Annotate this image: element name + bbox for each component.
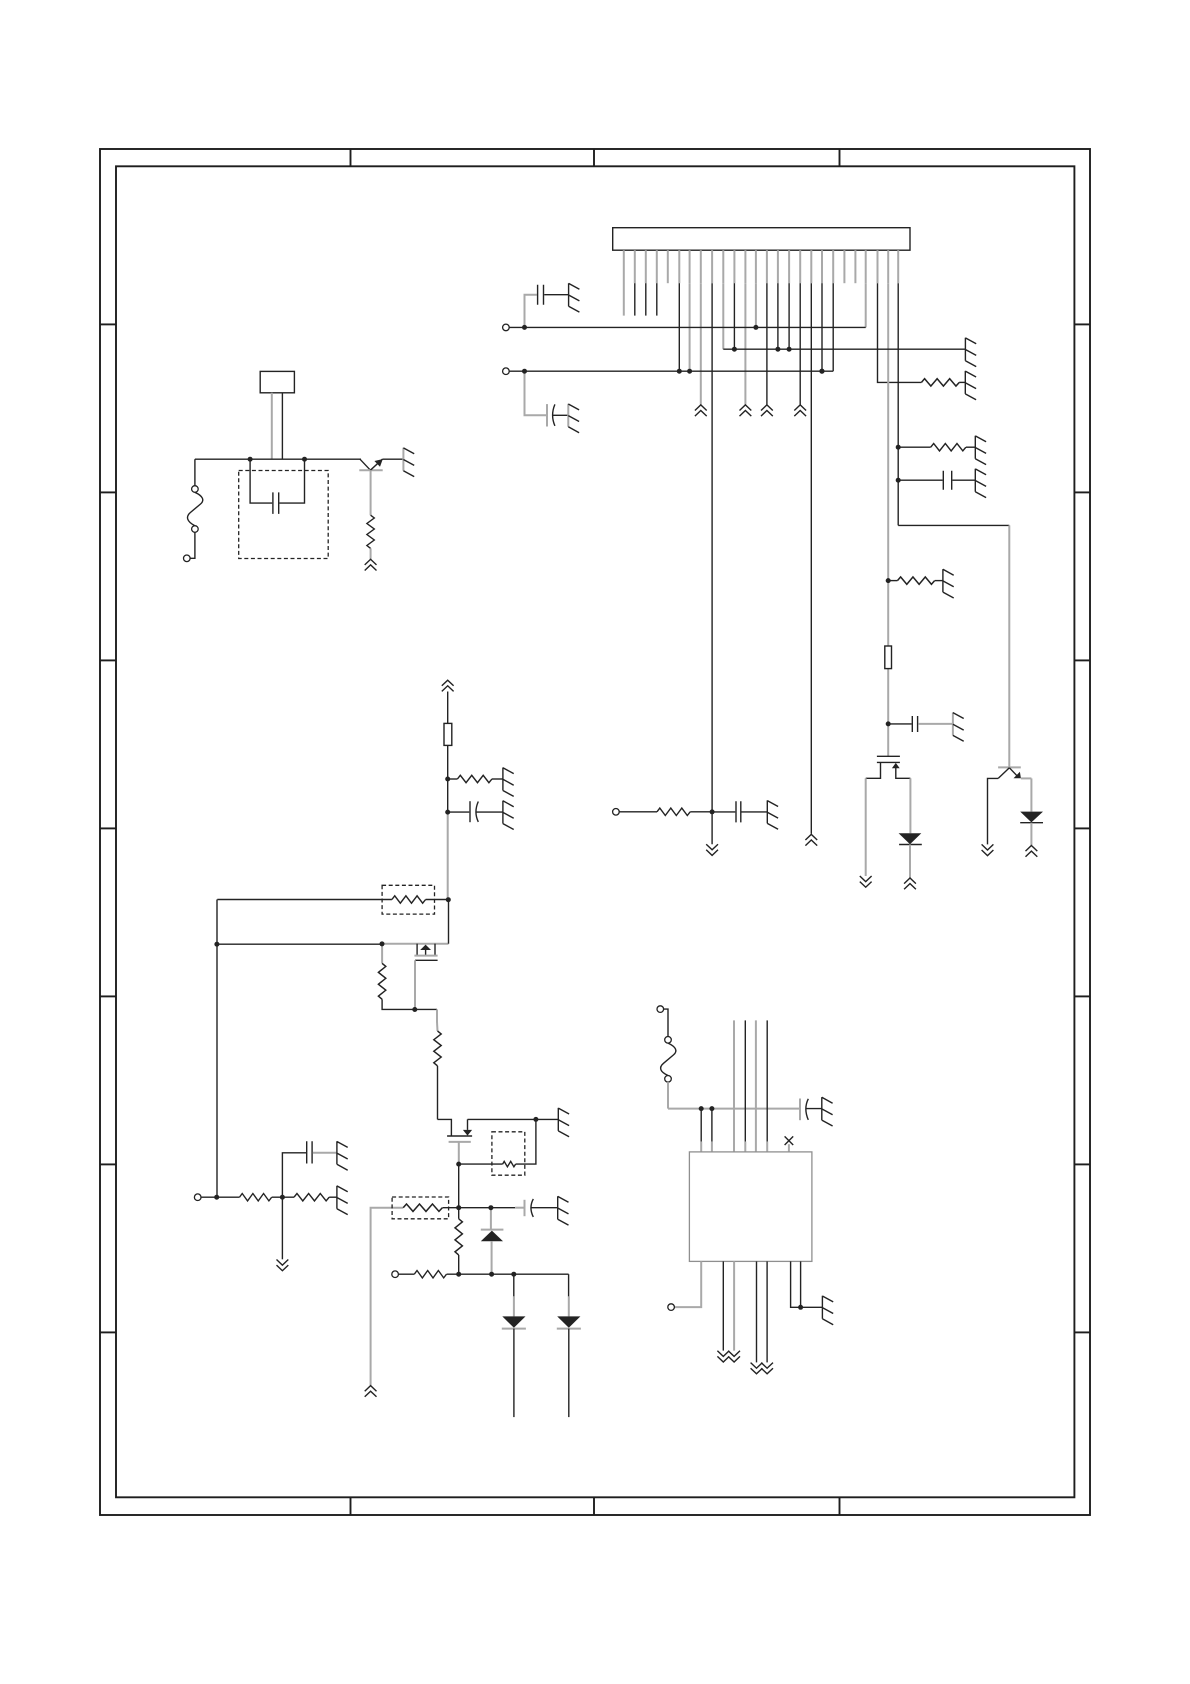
mosfet M2 source line [382, 943, 449, 945]
wire R3 to ground [966, 446, 975, 448]
junction [709, 1106, 714, 1111]
off-page arrow down AR14 [717, 1351, 729, 1362]
capacitor C5 plate straight [469, 801, 471, 822]
pin 8 wire [700, 283, 702, 404]
page outer border frame [100, 149, 1090, 1515]
capacitor C9 branch [282, 1153, 306, 1197]
junction [699, 1106, 704, 1111]
pin 10 wire to net W2 [722, 283, 724, 349]
pin 20 wire to net W3 end [832, 283, 834, 371]
resistor R5 (box style) [885, 646, 892, 669]
X1 lead 2 [281, 393, 283, 459]
ground GND5 [568, 404, 579, 433]
transistor Q2 base bar [998, 766, 1021, 768]
transistor Q1 base bar [359, 469, 382, 471]
mosfet M3 source step [438, 1119, 452, 1135]
diode D4 cathode wire [513, 1329, 515, 1418]
wire node A horizontal [195, 458, 361, 460]
ground GND15 [822, 1296, 833, 1325]
junction [302, 457, 307, 462]
bus wire B4 [766, 1020, 768, 1141]
pin 19 wire [821, 283, 823, 371]
off-page arrow up AR4 [740, 405, 752, 416]
off-page arrow down AR10 [982, 844, 994, 855]
IC U1 pin C wire [733, 1261, 735, 1350]
wire T4 to pin [664, 1009, 668, 1036]
off-page arrow down AR18 [277, 1260, 289, 1271]
capacitor C8 branch [712, 811, 735, 813]
wire R10 down to M3 [437, 1066, 439, 1120]
capacitor C6 plate straight [524, 1200, 526, 1216]
resistor R9 (vertical) [378, 963, 385, 999]
resistor R15 [657, 808, 690, 815]
junction [445, 810, 450, 815]
mosfet M3 channel bar [447, 1135, 472, 1137]
diode D5 [557, 1316, 580, 1327]
wire C9 to ground [313, 1152, 337, 1154]
net W4 wire [217, 943, 382, 945]
junction [896, 445, 901, 450]
wire to M2 drain node [447, 812, 449, 900]
net W5 wire [443, 1207, 516, 1209]
wire R1 to arrow [370, 548, 372, 559]
terminal T6 [613, 809, 620, 816]
resistor R3 [931, 444, 966, 451]
ground GND12 [558, 1108, 569, 1137]
junction [522, 369, 527, 374]
IC U1 pin b [711, 1109, 713, 1142]
pin 9 wire long [711, 283, 713, 844]
capacitor C5 plate curved [476, 802, 478, 822]
capacitor C8 plates [736, 801, 741, 822]
junction [511, 1272, 516, 1277]
wire R8 to node [426, 899, 449, 901]
resistor R4 branch [888, 580, 897, 582]
connector CN1 body [613, 228, 910, 251]
mosfet M2 gate lead [414, 960, 416, 1009]
IC U1 pin F wire [791, 1261, 801, 1307]
resistor R11 (small) [503, 1161, 516, 1166]
mosfet M3 gate bar [449, 1141, 471, 1143]
wire supply down [447, 692, 449, 724]
pin 26 wire [897, 283, 899, 525]
junction [798, 1305, 803, 1310]
junction [456, 1205, 461, 1210]
diode D5 feed wire [568, 1274, 570, 1296]
wire D1 cathode down [909, 845, 911, 878]
resistor R15 lead [619, 811, 657, 813]
diode D5 cathode wire [568, 1329, 570, 1418]
diode D3 [481, 1229, 504, 1231]
wire down from node [436, 1009, 438, 1022]
border tick marks top [350, 149, 352, 166]
jumper wire W1 [188, 492, 203, 525]
off-page arrow down AR16 [751, 1363, 763, 1374]
left bus vertical wire [216, 900, 218, 1198]
bus wire B3 [755, 1020, 757, 1152]
mosfet M2 channel bar [414, 955, 437, 957]
resistor R6 (box style) [444, 723, 452, 745]
pin 14 wire [766, 283, 768, 404]
junction [820, 369, 825, 374]
ground GND1 [403, 448, 414, 477]
off-page arrow up AR9 [904, 878, 916, 889]
pin 18 wire long [810, 283, 812, 834]
wire pin26 branch 2 [898, 479, 942, 481]
pin 7 wire [689, 283, 691, 371]
junction [896, 478, 901, 483]
wire R17 to ground [329, 1196, 337, 1198]
terminal T5 [668, 1304, 675, 1311]
capacitor C6 lead [515, 1207, 524, 1209]
wire R13 down [458, 1255, 460, 1274]
mosfet Q3 channel bar [877, 761, 900, 763]
resistor R2 [921, 379, 959, 386]
pin 25 wire long [887, 283, 889, 756]
capacitor C7 plate straight [799, 1099, 801, 1121]
capacitor C10 lead left [250, 459, 272, 503]
wire Q1 emitter to ground [382, 458, 403, 460]
wire R15 to junction [690, 811, 712, 813]
resistor R14 [414, 1271, 446, 1278]
pin 6 wire [678, 283, 680, 371]
off-page arrow up AR7 [805, 834, 817, 845]
capacitor C2 branch wire [525, 371, 547, 415]
mosfet M2 substrate arrow [420, 945, 431, 950]
IC U1 body [689, 1152, 812, 1262]
wire pin26 to Q2 [898, 524, 1009, 526]
junction [522, 325, 527, 330]
wire R2 to ground [959, 381, 965, 383]
resistor R16 [240, 1194, 272, 1201]
wire R7 to ground [492, 778, 503, 780]
wire R9 to node [382, 999, 437, 1009]
wire to ground [801, 1306, 823, 1308]
connector pin P1-c [184, 555, 191, 562]
wire C1 to ground [544, 294, 568, 296]
pin 11 wire [733, 283, 735, 349]
pin 2 wire [634, 283, 636, 315]
resistor R4 [898, 577, 935, 584]
mosfet M2 left leg [416, 944, 418, 956]
resistor R10 (vertical) [434, 1031, 441, 1066]
IC U1 pin A wire to T5 [675, 1261, 702, 1307]
resistor R1 (vertical) [367, 515, 374, 548]
junction [280, 1195, 285, 1200]
resistor R13 (vertical) [455, 1219, 462, 1255]
resistor R7 branch [448, 778, 458, 780]
resistor R8 feed wire [217, 899, 392, 901]
wire to R17 [272, 1196, 294, 1198]
pin 23 wire to net W1 end [865, 283, 867, 327]
bus wire B1 [733, 1020, 735, 1152]
bus wire B2 [744, 1020, 746, 1141]
transistor Q2 collector wire [1021, 777, 1032, 779]
IC U1 pin G wire [800, 1261, 802, 1307]
page inner border frame [116, 166, 1074, 1497]
capacitor C10 lead right [279, 459, 304, 503]
mosfet M3 drain arrow stem [467, 1119, 469, 1130]
junction [214, 1195, 219, 1200]
off-page arrow up AR11 [1026, 846, 1038, 857]
IC U1 pin B wire [722, 1261, 724, 1350]
transistor Q2 emitter wire [988, 778, 999, 844]
mosfet M2 right leg [434, 944, 436, 956]
wire C4 to ground [918, 723, 953, 725]
wire gate node down [458, 1164, 460, 1208]
wire node to R9 [381, 944, 383, 964]
wire Q3 drain down [909, 778, 911, 833]
junction [677, 369, 682, 374]
wire R6 down [447, 745, 449, 812]
diode D3 anode wire [490, 1208, 492, 1230]
net W8 wire [668, 1108, 799, 1110]
wire P2 down [667, 1082, 669, 1109]
wire to pin P1-c [190, 532, 195, 558]
ground GND14 [822, 1097, 833, 1126]
junction [753, 325, 758, 330]
capacitor C6 plate curved [531, 1199, 533, 1217]
transistor Q2 emitter slant [998, 768, 1009, 779]
diode D3 lower wire [491, 1241, 493, 1274]
mosfet M3 gate lead [458, 1142, 460, 1164]
off-page arrow up AR1 [365, 559, 377, 570]
terminal T1 [503, 324, 510, 331]
junction [533, 1117, 538, 1122]
off-page arrow up AR5 [761, 405, 773, 416]
off-page arrow down AR8 [860, 876, 872, 887]
component X1 body [260, 371, 294, 392]
ground GND6 [975, 436, 986, 465]
wire to connector P1 [194, 459, 196, 486]
ground GND4 [965, 338, 976, 367]
capacitor C3 plates [943, 471, 951, 490]
wire C3 to ground [952, 479, 975, 481]
off-page arrow up AR12 (supply) [442, 680, 454, 691]
ground GND16 [767, 800, 778, 829]
net W1 wire [509, 326, 866, 328]
capacitor C4 plates [912, 716, 917, 732]
junction [886, 578, 891, 583]
junction [488, 1205, 493, 1210]
wire D2 cathode down [1030, 823, 1032, 845]
border tick marks right [1074, 323, 1090, 325]
diode D1 [899, 833, 922, 844]
capacitor C2 plate curved [553, 404, 555, 426]
wire R11 up to drain node [516, 1119, 536, 1164]
IC U1 pin E wire [766, 1261, 768, 1362]
wire node to R11 [459, 1163, 503, 1165]
jumper wire W7 [661, 1043, 676, 1075]
junction [380, 941, 385, 946]
border tick marks bottom [350, 1497, 352, 1515]
pin 3 wire [645, 283, 647, 315]
connector pin P2-b [665, 1076, 672, 1083]
off-page arrow up AR6 [794, 405, 806, 416]
wire Q3 source down [865, 778, 867, 876]
ground GND3 [569, 283, 580, 312]
off-page arrow down AR3 [706, 844, 718, 855]
ground GND17 [337, 1186, 348, 1215]
resistor R7 [457, 775, 492, 782]
connector pin P2-a [665, 1037, 672, 1044]
junction [775, 347, 780, 352]
junction [445, 777, 450, 782]
mosfet M2 gate bar [415, 959, 438, 961]
junction [214, 942, 219, 947]
junction [710, 809, 715, 814]
connector pin P1-a [192, 486, 199, 493]
off-page arrow down AR17 [761, 1363, 773, 1374]
ground GND11 [503, 801, 514, 830]
junction [787, 347, 792, 352]
IC U1 pin D wire [756, 1261, 758, 1362]
junction [819, 369, 824, 374]
off-page arrow up AR13 [365, 1386, 377, 1397]
ground GND8 [943, 569, 954, 598]
connector pin P1-b [192, 526, 199, 533]
IC U1 NC pin stub [788, 1144, 790, 1152]
pin 17 wire [799, 283, 801, 404]
off-page arrow up AR2 [695, 405, 707, 416]
transistor Q1 emitter slant with arrow [370, 459, 382, 470]
resistor R8 [392, 896, 426, 903]
terminal T7 [194, 1194, 201, 1201]
wire R4 to ground [935, 580, 943, 582]
off-page arrow down AR15 [728, 1351, 740, 1362]
wire T7 to junction [201, 1196, 240, 1198]
junction [886, 721, 891, 726]
dashed enclosure box for C10 [239, 471, 329, 559]
net W3 wire [509, 370, 833, 372]
terminal T4 [657, 1006, 664, 1013]
capacitor C1 plates [538, 285, 544, 305]
pin 24 wire [878, 283, 922, 382]
wire C2 to ground [553, 414, 569, 416]
X1 lead 1 [271, 393, 273, 459]
wire pin26 branch 1 [898, 446, 931, 448]
terminal T3 [392, 1271, 399, 1278]
dashed enclosure box for R11 [492, 1132, 525, 1175]
capacitor C9 plates [307, 1141, 312, 1163]
ground GND7 [975, 469, 986, 498]
wire down to Q2 base [1008, 525, 1010, 767]
capacitor C4 branch wire [888, 723, 911, 725]
pin 16 wire [788, 283, 790, 349]
capacitor C2 plate straight [546, 404, 548, 426]
junction [456, 1272, 461, 1277]
mosfet M3 substrate arrow [463, 1130, 472, 1136]
ground GND10 [503, 768, 514, 797]
resistor R14 lead [398, 1273, 414, 1275]
junction [412, 1007, 417, 1012]
diode D4 [502, 1316, 525, 1327]
mosfet Q3 drain leg [896, 768, 911, 778]
resistor R12 [403, 1204, 442, 1211]
diode D2 [1020, 812, 1043, 823]
mosfet Q3 substrate arrow [892, 763, 900, 768]
wire C7 to ground [806, 1108, 822, 1110]
mosfet Q3 source leg [866, 762, 881, 778]
resistor R17 [294, 1194, 329, 1201]
transistor Q1 collector slant [360, 459, 370, 470]
capacitor C10 plates [273, 492, 279, 514]
IC U1 pin a [700, 1109, 702, 1142]
wire W5 left lead [371, 1208, 404, 1386]
capacitor C5 branch [448, 811, 470, 813]
dashed enclosure box for R12 [392, 1197, 449, 1219]
wire junction down [281, 1197, 283, 1259]
mosfet Q3 gate bar [877, 755, 900, 757]
wire C8 to ground [742, 811, 768, 813]
ground GND2 [965, 371, 976, 400]
pin 13 wire [755, 283, 757, 327]
junction [248, 457, 253, 462]
capacitor C7 plate curved [806, 1099, 808, 1120]
junction [456, 1162, 461, 1167]
mosfet M2 drain wire up [448, 900, 450, 944]
terminal T2 [503, 368, 510, 375]
wire node to R13 [458, 1208, 460, 1219]
pin 4 wire [656, 283, 658, 315]
wire C6 to ground [531, 1207, 558, 1209]
wire C5 to ground [476, 811, 503, 813]
wire Q1 base lead [370, 470, 372, 515]
junction [687, 369, 692, 374]
ground GND9 [953, 712, 964, 741]
pin 12 wire [744, 283, 746, 404]
junction [446, 897, 451, 902]
transistor Q2 collector arrow [1009, 768, 1017, 777]
junction [489, 1272, 494, 1277]
capacitor C1 branch wire [525, 295, 537, 328]
ground GND13 [558, 1196, 569, 1225]
net W2 wire [723, 348, 965, 350]
pin 15 wire [777, 283, 779, 349]
junction [732, 347, 737, 352]
dashed enclosure box for R8 [382, 885, 434, 914]
diode D4 feed wire [513, 1274, 515, 1296]
net W6 wire [447, 1273, 569, 1275]
ground GND18 [337, 1141, 348, 1170]
border tick marks left [100, 323, 116, 325]
mosfet M3 drain wire [468, 1118, 559, 1120]
no-connect mark X on IC pin [785, 1136, 794, 1145]
connector CN1 pin stubs [624, 250, 898, 315]
